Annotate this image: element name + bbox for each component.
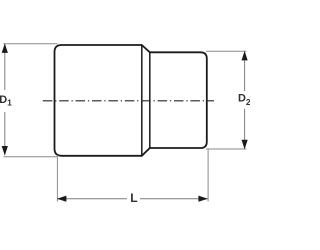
D2 dimension line lower segment xyxy=(244,109,246,149)
D1 arrow down xyxy=(2,146,8,156)
D2 dimension line upper segment xyxy=(244,52,246,91)
L extension line right xyxy=(207,150,209,202)
L dimension line right segment xyxy=(140,198,208,200)
L arrow right xyxy=(198,196,208,202)
body face edge line xyxy=(141,45,143,156)
D1 extension line top xyxy=(3,43,57,45)
svg-text:L: L xyxy=(130,191,137,205)
D2 extension line top xyxy=(206,50,246,52)
L extension line left xyxy=(56,155,58,202)
D2 arrow up xyxy=(242,51,248,61)
chamfer top xyxy=(142,45,150,52)
centerline xyxy=(43,100,214,102)
svg-text:D1: D1 xyxy=(0,94,12,107)
D1 dimension line lower segment xyxy=(4,112,6,155)
chamfer bottom xyxy=(142,148,150,156)
cone-cylinder edge line xyxy=(149,52,151,148)
svg-text:D2: D2 xyxy=(238,93,250,108)
L dimension line left segment xyxy=(58,198,127,200)
D1 dimension line upper segment xyxy=(4,44,6,90)
D2 extension line bottom xyxy=(206,148,246,150)
L arrow left xyxy=(57,196,67,202)
D1 arrow up xyxy=(2,43,8,53)
socket body outline xyxy=(55,45,142,156)
D2 arrow down xyxy=(242,140,248,150)
drive cylinder outline xyxy=(150,52,207,148)
D1 extension line bottom xyxy=(3,156,57,158)
